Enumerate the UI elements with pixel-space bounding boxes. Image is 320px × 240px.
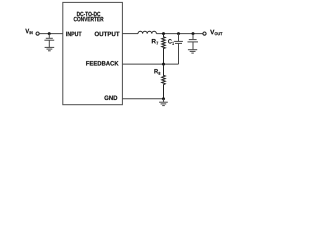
terminal VIN circle	[36, 32, 39, 35]
capacitor output	[188, 34, 199, 50]
label CONVERTER	[74, 17, 104, 22]
pin label FEEDBACK	[86, 61, 118, 66]
wire VIN to INPUT	[39, 33, 63, 35]
node feedback junction	[162, 63, 165, 66]
label VOUT	[210, 30, 222, 35]
resistor R8	[162, 64, 166, 99]
label R8	[154, 69, 160, 75]
wire FEEDBACK rail	[122, 63, 178, 65]
converter box U1	[63, 2, 123, 104]
wire inductor to VOUT	[156, 33, 203, 35]
terminal VOUT circle	[203, 32, 206, 35]
label R7	[152, 39, 158, 45]
node gnd junction	[162, 97, 165, 100]
capacitor input bypass	[44, 34, 54, 47]
ground input	[45, 47, 55, 50]
node B top of C1	[177, 32, 180, 35]
resistor R7	[162, 34, 166, 65]
ground output	[188, 50, 197, 53]
pin label INPUT	[66, 32, 81, 36]
node C top of output cap	[192, 32, 195, 35]
ground bottom	[159, 99, 168, 106]
label DC-TO-DC	[77, 12, 100, 17]
node A top of R7	[162, 32, 165, 35]
label VIN	[25, 29, 32, 34]
node input junction	[48, 32, 51, 35]
capacitor C1	[174, 34, 183, 65]
label C1	[168, 39, 174, 45]
pin label GND	[104, 96, 117, 101]
wire GND rail	[122, 98, 163, 100]
inductor L1	[138, 31, 156, 33]
pin label OUTPUT	[95, 32, 120, 37]
wire OUTPUT to inductor	[122, 33, 138, 35]
